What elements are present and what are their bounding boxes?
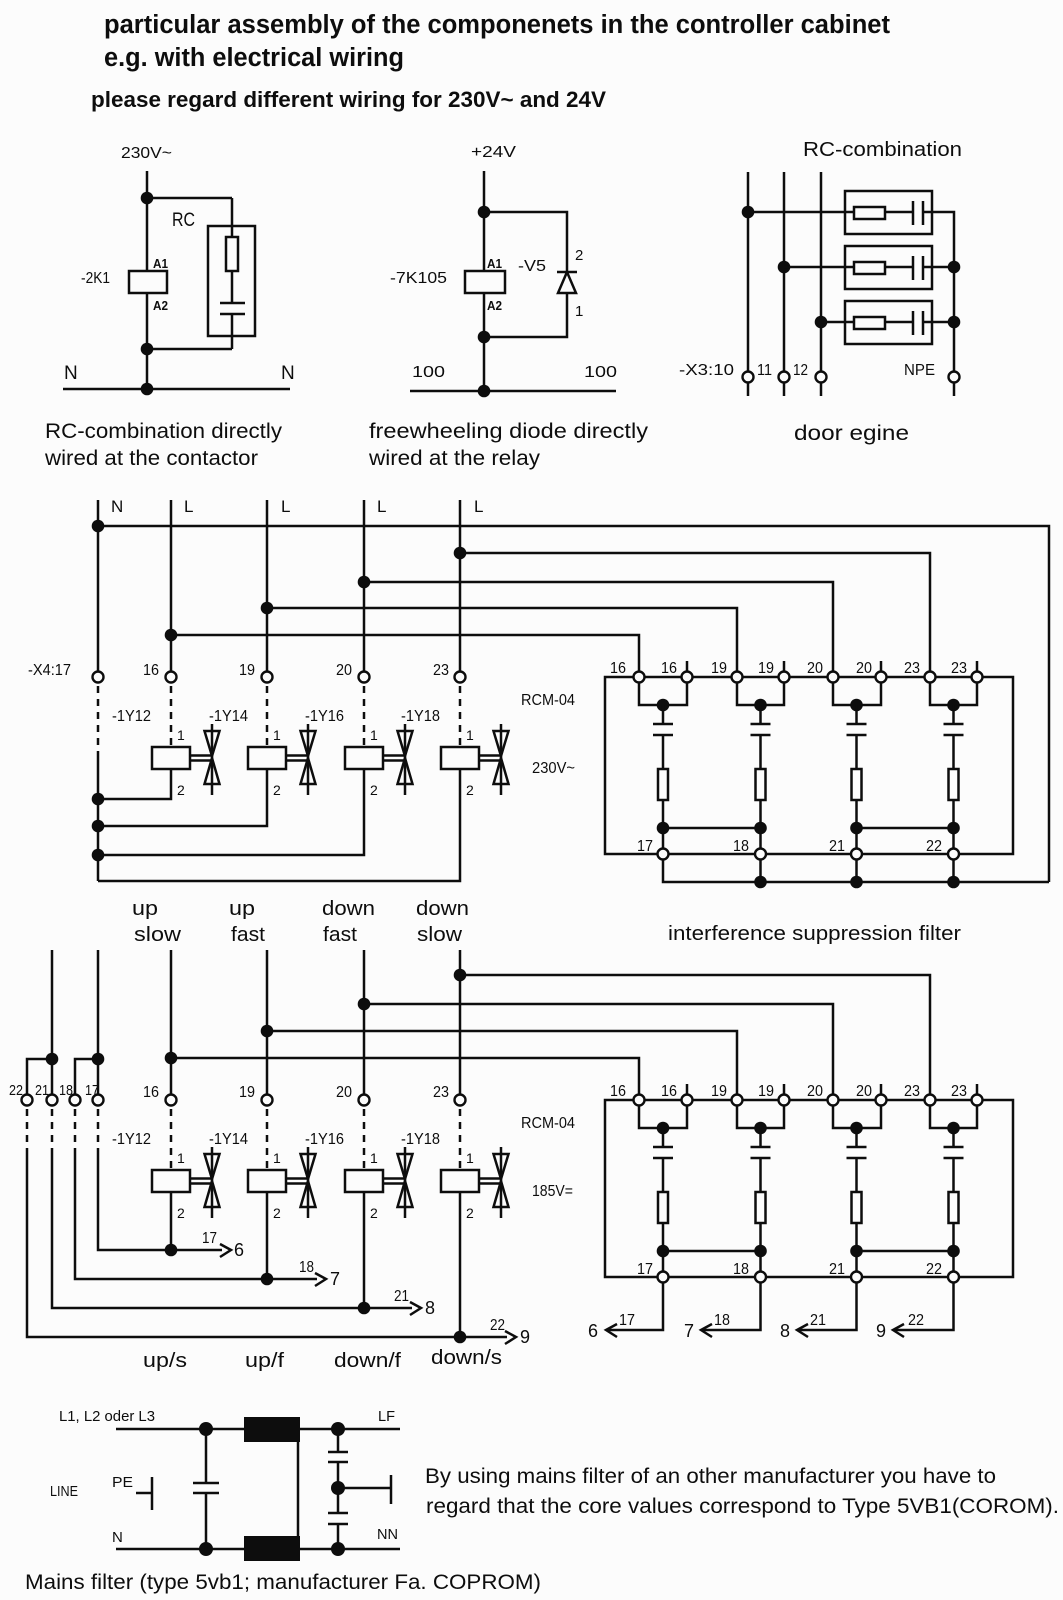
column 20 lower xyxy=(363,950,366,1094)
drop 21 to bus xyxy=(855,860,858,882)
Y-cap lower plate a xyxy=(328,1512,348,1515)
wire 23 through resistor lower xyxy=(952,1158,955,1277)
RC module 1 box xyxy=(845,191,932,234)
svg-text:21: 21 xyxy=(394,1288,409,1305)
earth terminal bar xyxy=(390,1475,393,1504)
stub above terminal 23b upper xyxy=(976,661,979,671)
svg-text:21: 21 xyxy=(810,1312,826,1329)
svg-text:A1: A1 xyxy=(487,257,502,271)
return -1Y16 lower xyxy=(363,1192,366,1308)
junction -1Y18 return xyxy=(454,1331,467,1344)
junction 22 upper xyxy=(947,822,960,835)
svg-text:16: 16 xyxy=(661,1083,677,1100)
column L3 upper xyxy=(363,500,366,671)
svg-text:20: 20 xyxy=(807,1083,823,1100)
branch to terminal 18 xyxy=(75,1059,98,1094)
svg-text:19: 19 xyxy=(239,1084,255,1101)
terminal 23a lower xyxy=(925,1095,936,1106)
resistor 19 lower xyxy=(756,1192,766,1223)
resistor R of RC xyxy=(226,237,238,271)
terminal 21 upper xyxy=(851,849,862,860)
terminal 22 upper xyxy=(948,849,959,860)
junction pair 16 lower xyxy=(657,1122,670,1135)
svg-text:up/s: up/s xyxy=(143,1350,187,1372)
svg-text:19: 19 xyxy=(711,1083,727,1100)
terminal 19b upper xyxy=(779,672,790,683)
capacitor C top plate xyxy=(220,302,245,305)
svg-text:23: 23 xyxy=(951,660,967,677)
wire cap feed 16 upper xyxy=(662,705,665,724)
svg-text:23: 23 xyxy=(433,662,449,679)
valve body -1Y16 lower lower xyxy=(398,1181,413,1207)
wire RC branch vertical xyxy=(231,198,234,303)
solenoid coil -1Y16 upper xyxy=(345,747,383,769)
wire to diode top xyxy=(484,212,567,272)
terminal -X4:23 xyxy=(455,672,466,683)
svg-text:1: 1 xyxy=(177,727,185,743)
valve body -1Y14 upper lower xyxy=(301,758,316,784)
junction L2 bus xyxy=(261,602,274,615)
svg-text:-2K1: -2K1 xyxy=(81,270,110,287)
capacitor 16 top plate upper xyxy=(653,723,673,726)
stub above terminal 20b upper xyxy=(880,661,883,671)
diode V5 cathode bar xyxy=(557,271,577,274)
wire 22 to row9 xyxy=(27,1148,507,1337)
svg-text:RC: RC xyxy=(172,210,195,231)
junction return row2 xyxy=(948,261,961,274)
valve stem -1Y18 lower xyxy=(500,1147,503,1218)
junction N row a xyxy=(92,793,105,806)
svg-text:17: 17 xyxy=(619,1312,635,1329)
svg-text:fast: fast xyxy=(231,924,265,946)
column L1 upper xyxy=(170,500,173,671)
svg-text:Mains filter (type 5vb1; manuf: Mains filter (type 5vb1; manufacturer Fa… xyxy=(25,1571,541,1594)
svg-text:8: 8 xyxy=(780,1321,790,1341)
dashed wire 16 valve xyxy=(170,686,173,747)
svg-text:9: 9 xyxy=(520,1327,530,1347)
terminal 21 left xyxy=(47,1095,58,1106)
wire to RC branch top xyxy=(147,197,232,200)
wire Y-cap mid xyxy=(337,1462,340,1513)
X-cap top plate xyxy=(193,1482,219,1485)
svg-text:down/f: down/f xyxy=(334,1350,401,1372)
svg-text:-1Y18: -1Y18 xyxy=(401,1131,440,1148)
interference filter RCM-04 box lower xyxy=(605,1100,1013,1277)
valve stem -1Y12 lower xyxy=(211,1147,214,1218)
svg-text:19: 19 xyxy=(239,662,255,679)
svg-text:12: 12 xyxy=(793,362,808,379)
arrowhead node 6 xyxy=(606,1324,617,1337)
terminal -X4:16 xyxy=(166,672,177,683)
capacitor 16 top plate lower xyxy=(653,1146,673,1149)
dashed wire 19 valve xyxy=(266,686,269,747)
junction Y-caps xyxy=(331,1481,345,1495)
junction on N rail xyxy=(141,383,154,396)
stub above terminal 19b upper xyxy=(783,661,786,671)
svg-text:21: 21 xyxy=(829,838,845,855)
svg-text:particular assembly of the com: particular assembly of the componenets i… xyxy=(104,11,891,39)
svg-text:NN: NN xyxy=(377,1526,398,1543)
wire pair 20 join lower xyxy=(833,1106,881,1128)
junction -1Y12 return xyxy=(165,1244,178,1257)
terminal 19 lower xyxy=(262,1095,273,1106)
wire cap feed 16 lower xyxy=(662,1128,665,1147)
valve body -1Y12 lower lower xyxy=(205,1181,220,1207)
junction pair 19 lower xyxy=(754,1122,767,1135)
wire N rail xyxy=(63,388,290,391)
resistor 20 upper xyxy=(852,769,862,800)
svg-text:wired at the contactor: wired at the contactor xyxy=(44,447,258,470)
valve body -1Y14 lower lower xyxy=(301,1181,316,1207)
bus N to filter return xyxy=(98,526,1049,882)
dashed wire 23 lower xyxy=(459,1109,462,1170)
capacitor RC1 left plate xyxy=(912,201,915,225)
solenoid coil -1Y16 lower xyxy=(345,1170,383,1192)
wire cap feed 20 lower xyxy=(855,1128,858,1147)
actuator link -1Y14 upper b xyxy=(286,759,308,762)
wire Y-cap lower xyxy=(337,1524,340,1549)
terminal 16a upper xyxy=(634,672,645,683)
junction pair 23 upper xyxy=(947,699,960,712)
terminal -X3:12 xyxy=(816,372,827,383)
junction 19 bus lower xyxy=(261,1025,274,1038)
wire RC return xyxy=(147,348,232,351)
link 17-18 upper xyxy=(663,827,761,830)
svg-text:20: 20 xyxy=(807,660,823,677)
actuator link -1Y16 upper a xyxy=(383,754,405,757)
junction pair 19 upper xyxy=(754,699,767,712)
terminal 23b lower xyxy=(972,1095,983,1106)
capacitor 23 bottom plate lower xyxy=(944,1157,964,1160)
junction 22 bus xyxy=(947,876,960,889)
junction phase3 xyxy=(815,316,828,329)
wire cap feed 23 lower xyxy=(952,1128,955,1147)
bus L2 to filter 19 xyxy=(267,608,737,671)
Y-cap lower plate b xyxy=(328,1523,348,1526)
wire 19 through resistor lower xyxy=(759,1158,762,1277)
svg-text:11: 11 xyxy=(757,362,772,379)
svg-text:20: 20 xyxy=(856,660,872,677)
resistor RC1 xyxy=(854,207,885,219)
junction 17 upper xyxy=(657,822,670,835)
wire 18 to node 7 xyxy=(701,1283,761,1330)
Y-cap upper plate a xyxy=(328,1451,348,1454)
svg-text:interference suppression filte: interference suppression filter xyxy=(668,923,961,945)
svg-text:18: 18 xyxy=(733,1261,749,1278)
terminal 22 left xyxy=(22,1095,33,1106)
column B lower section xyxy=(97,950,100,1094)
junction mains top left xyxy=(199,1422,213,1436)
svg-text:-1Y12: -1Y12 xyxy=(112,1131,151,1148)
solenoid coil -1Y18 lower xyxy=(441,1170,479,1192)
dashed wire 18 left xyxy=(74,1109,77,1148)
dashed wire 17 left xyxy=(97,1109,100,1148)
capacitor 19 top plate upper xyxy=(751,723,771,726)
valve stem -1Y18 upper xyxy=(500,724,503,795)
svg-text:21: 21 xyxy=(829,1261,845,1278)
bus L3 to filter 20 xyxy=(364,582,833,671)
dashed wire N valve xyxy=(97,686,100,753)
stub above terminal 19b lower xyxy=(783,1084,786,1094)
column N upper xyxy=(97,500,100,671)
bus 19 to filter lower xyxy=(267,1031,737,1094)
terminal 22 lower xyxy=(948,1272,959,1283)
svg-text:7: 7 xyxy=(684,1321,694,1341)
svg-text:L: L xyxy=(184,497,193,516)
dashed wire 16 lower xyxy=(170,1109,173,1170)
svg-text:-1Y12: -1Y12 xyxy=(112,708,151,725)
bus L4 to filter 23 xyxy=(460,553,930,671)
svg-text:freewheeling diode directly: freewheeling diode directly xyxy=(369,420,649,443)
contactor coil -2K1 xyxy=(129,271,167,293)
terminal -X4:17 xyxy=(93,672,104,683)
svg-text:wired at the relay: wired at the relay xyxy=(368,447,541,470)
svg-text:20: 20 xyxy=(856,1083,872,1100)
return -1Y14 upper xyxy=(98,769,267,826)
actuator link -1Y16 upper b xyxy=(383,759,405,762)
column 23 lower xyxy=(459,950,462,1094)
svg-text:A2: A2 xyxy=(487,299,502,313)
X-cap bottom plate xyxy=(193,1492,219,1495)
junction at relay bottom xyxy=(478,331,491,344)
dashed wire 21 left xyxy=(51,1109,54,1148)
capacitor 20 top plate lower xyxy=(847,1146,867,1149)
svg-text:up/f: up/f xyxy=(245,1350,285,1372)
junction 23 bus lower xyxy=(454,969,467,982)
svg-text:20: 20 xyxy=(336,1084,352,1101)
RC module 3 box xyxy=(845,301,932,344)
svg-text:16: 16 xyxy=(610,660,626,677)
capacitor 23 top plate upper xyxy=(944,723,964,726)
wire pair 23 join upper xyxy=(930,683,977,705)
svg-text:23: 23 xyxy=(904,1083,920,1100)
capacitor 20 bottom plate upper xyxy=(847,734,867,737)
actuator link -1Y14 lower b xyxy=(286,1182,308,1185)
junction 21 lower xyxy=(850,1245,863,1258)
terminal 19a lower xyxy=(732,1095,743,1106)
wire 19 through resistor upper xyxy=(759,735,762,854)
capacitor RC2 right plate xyxy=(922,256,925,280)
terminal -X4:19 xyxy=(262,672,273,683)
junction 18 bus xyxy=(754,876,767,889)
valve body -1Y18 lower lower xyxy=(494,1181,509,1207)
svg-text:A1: A1 xyxy=(153,257,168,271)
solenoid coil -1Y12 upper xyxy=(152,747,190,769)
actuator link -1Y18 upper b xyxy=(479,759,501,762)
junction mains bottom left xyxy=(199,1542,213,1556)
wire +24V feed xyxy=(483,171,486,391)
resistor RC2 xyxy=(854,262,885,274)
terminal 18 lower xyxy=(755,1272,766,1283)
bus 23 to filter lower xyxy=(460,975,930,1094)
junction 20 bus lower xyxy=(358,998,371,1011)
svg-text:19: 19 xyxy=(758,660,774,677)
return -1Y16 upper xyxy=(98,769,364,855)
wire RC row3 out xyxy=(923,321,954,324)
actuator link -1Y12 lower a xyxy=(190,1177,212,1180)
inductor winding bottom xyxy=(244,1536,300,1561)
svg-text:1: 1 xyxy=(370,1150,378,1166)
wire RC row1 out xyxy=(923,212,954,371)
wire cap feed 19 upper xyxy=(759,705,762,724)
PE lead xyxy=(136,1492,152,1495)
valve stem -1Y12 upper xyxy=(211,724,214,795)
wire pair 19 join lower xyxy=(737,1106,784,1128)
svg-text:e.g. with electrical wiring: e.g. with electrical wiring xyxy=(104,44,404,72)
svg-text:18: 18 xyxy=(714,1312,730,1329)
svg-text:8: 8 xyxy=(425,1298,435,1318)
svg-text:N: N xyxy=(64,363,78,384)
svg-text:23: 23 xyxy=(951,1083,967,1100)
terminal 20 lower xyxy=(359,1095,370,1106)
svg-text:up: up xyxy=(229,898,255,920)
junction 17 lower xyxy=(657,1245,670,1258)
svg-text:+24V: +24V xyxy=(471,144,516,161)
mains top wire xyxy=(116,1428,400,1431)
actuator link -1Y18 upper a xyxy=(479,754,501,757)
junction pair 20 lower xyxy=(850,1122,863,1135)
svg-text:2: 2 xyxy=(466,782,474,798)
junction -1Y14 return xyxy=(261,1273,274,1286)
solenoid coil -1Y18 upper xyxy=(441,747,479,769)
wire 17 to row6 xyxy=(98,1148,222,1250)
capacitor 16 bottom plate upper xyxy=(653,734,673,737)
svg-text:down: down xyxy=(322,898,375,920)
junction N bus xyxy=(92,520,105,533)
svg-text:-1Y14: -1Y14 xyxy=(209,1131,248,1148)
actuator link -1Y16 lower a xyxy=(383,1177,405,1180)
svg-text:-1Y16: -1Y16 xyxy=(305,1131,344,1148)
svg-text:22: 22 xyxy=(490,1317,505,1334)
actuator link -1Y18 lower b xyxy=(479,1182,501,1185)
bus 20 to filter lower xyxy=(364,1004,833,1094)
valve body -1Y18 upper lower xyxy=(494,758,509,784)
terminal 16 lower xyxy=(166,1095,177,1106)
stub above terminal 23b lower xyxy=(976,1084,979,1094)
valve stem -1Y16 lower xyxy=(404,1147,407,1218)
svg-text:6: 6 xyxy=(234,1240,244,1260)
dashed wire 20 valve xyxy=(363,686,366,747)
dashed wire 22 left xyxy=(26,1109,29,1148)
svg-text:16: 16 xyxy=(610,1083,626,1100)
svg-text:N: N xyxy=(281,363,295,384)
stub above terminal 20b lower xyxy=(880,1084,883,1094)
return -1Y12 lower xyxy=(170,1192,173,1250)
wire pair 16 join lower xyxy=(639,1106,687,1128)
resistor 16 upper xyxy=(658,769,668,800)
junction at contactor top xyxy=(141,192,154,205)
bus L1 to filter 16 xyxy=(171,635,639,671)
link 17-18 lower xyxy=(663,1250,761,1253)
svg-text:1: 1 xyxy=(273,727,281,743)
svg-text:-1Y18: -1Y18 xyxy=(401,708,440,725)
svg-text:17: 17 xyxy=(637,838,653,855)
actuator link -1Y12 lower b xyxy=(190,1182,212,1185)
wire RC row1 xyxy=(748,211,913,214)
junction column A xyxy=(46,1053,59,1066)
RC module 2 box xyxy=(845,246,932,289)
svg-text:NPE: NPE xyxy=(904,362,935,379)
wire phase 3 drop xyxy=(820,172,823,371)
dashed wire 19 lower xyxy=(266,1109,269,1170)
svg-text:2: 2 xyxy=(177,1205,185,1221)
svg-text:1: 1 xyxy=(177,1150,185,1166)
svg-text:-1Y14: -1Y14 xyxy=(209,708,248,725)
svg-text:A2: A2 xyxy=(153,299,168,313)
junction mains top right xyxy=(331,1422,345,1436)
actuator link -1Y12 upper a xyxy=(190,754,212,757)
svg-text:17: 17 xyxy=(637,1261,653,1278)
capacitor 20 top plate upper xyxy=(847,723,867,726)
svg-text:L: L xyxy=(281,497,290,516)
svg-text:down/s: down/s xyxy=(431,1347,502,1369)
wire cap feed 19 lower xyxy=(759,1128,762,1147)
svg-text:L: L xyxy=(474,497,483,516)
actuator link -1Y18 lower a xyxy=(479,1177,501,1180)
stub above terminal 16b lower xyxy=(686,1084,689,1094)
svg-text:2: 2 xyxy=(370,782,378,798)
column A lower section xyxy=(51,950,54,1094)
solenoid coil -1Y14 upper xyxy=(248,747,286,769)
terminal -X4:20 xyxy=(359,672,370,683)
svg-text:16: 16 xyxy=(661,660,677,677)
wire 21 to node 8 xyxy=(797,1283,857,1330)
svg-text:1: 1 xyxy=(273,1150,281,1166)
junction 18 upper xyxy=(754,822,767,835)
arrowhead row 6 xyxy=(220,1244,231,1257)
RC network box xyxy=(208,226,255,336)
svg-text:RC-combination directly: RC-combination directly xyxy=(45,420,283,443)
svg-text:LINE: LINE xyxy=(50,1483,78,1500)
wire 16 through resistor lower xyxy=(662,1158,665,1277)
terminal 16a lower xyxy=(634,1095,645,1106)
svg-text:22: 22 xyxy=(908,1312,924,1329)
arrowhead node 8 xyxy=(797,1324,808,1337)
wire 100 rail xyxy=(410,390,616,393)
wire 20 through resistor upper xyxy=(855,735,858,854)
return -1Y18 lower xyxy=(459,1192,462,1337)
inductor core link xyxy=(297,1442,300,1536)
dashed wire 20 lower xyxy=(363,1109,366,1170)
svg-text:2: 2 xyxy=(177,782,185,798)
resistor 20 lower xyxy=(852,1192,862,1223)
wire cap feed 20 upper xyxy=(855,705,858,724)
diode V5 triangle xyxy=(558,272,576,293)
arrowhead node 7 xyxy=(701,1324,712,1337)
svg-text:-V5: -V5 xyxy=(518,258,546,275)
wire X-cap bottom xyxy=(205,1493,208,1549)
terminal 20b upper xyxy=(876,672,887,683)
valve body -1Y12 upper lower xyxy=(205,758,220,784)
wire Y-cap upper feed xyxy=(337,1429,340,1452)
terminal 23b upper xyxy=(972,672,983,683)
resistor 23 upper xyxy=(949,769,959,800)
column 16 lower xyxy=(170,950,173,1094)
junction 16 bus lower xyxy=(165,1052,178,1065)
actuator link -1Y16 lower b xyxy=(383,1182,405,1185)
svg-text:2: 2 xyxy=(273,1205,281,1221)
solenoid coil -1Y14 lower xyxy=(248,1170,286,1192)
capacitor 19 bottom plate lower xyxy=(751,1157,771,1160)
junction -1Y16 return xyxy=(358,1302,371,1315)
wire RC row2 xyxy=(784,266,913,269)
actuator link -1Y14 upper a xyxy=(286,754,308,757)
capacitor 19 top plate lower xyxy=(751,1146,771,1149)
wire 16 through resistor upper xyxy=(662,735,665,854)
terminal 23a upper xyxy=(925,672,936,683)
svg-text:2: 2 xyxy=(273,782,281,798)
svg-text:N: N xyxy=(111,497,123,516)
